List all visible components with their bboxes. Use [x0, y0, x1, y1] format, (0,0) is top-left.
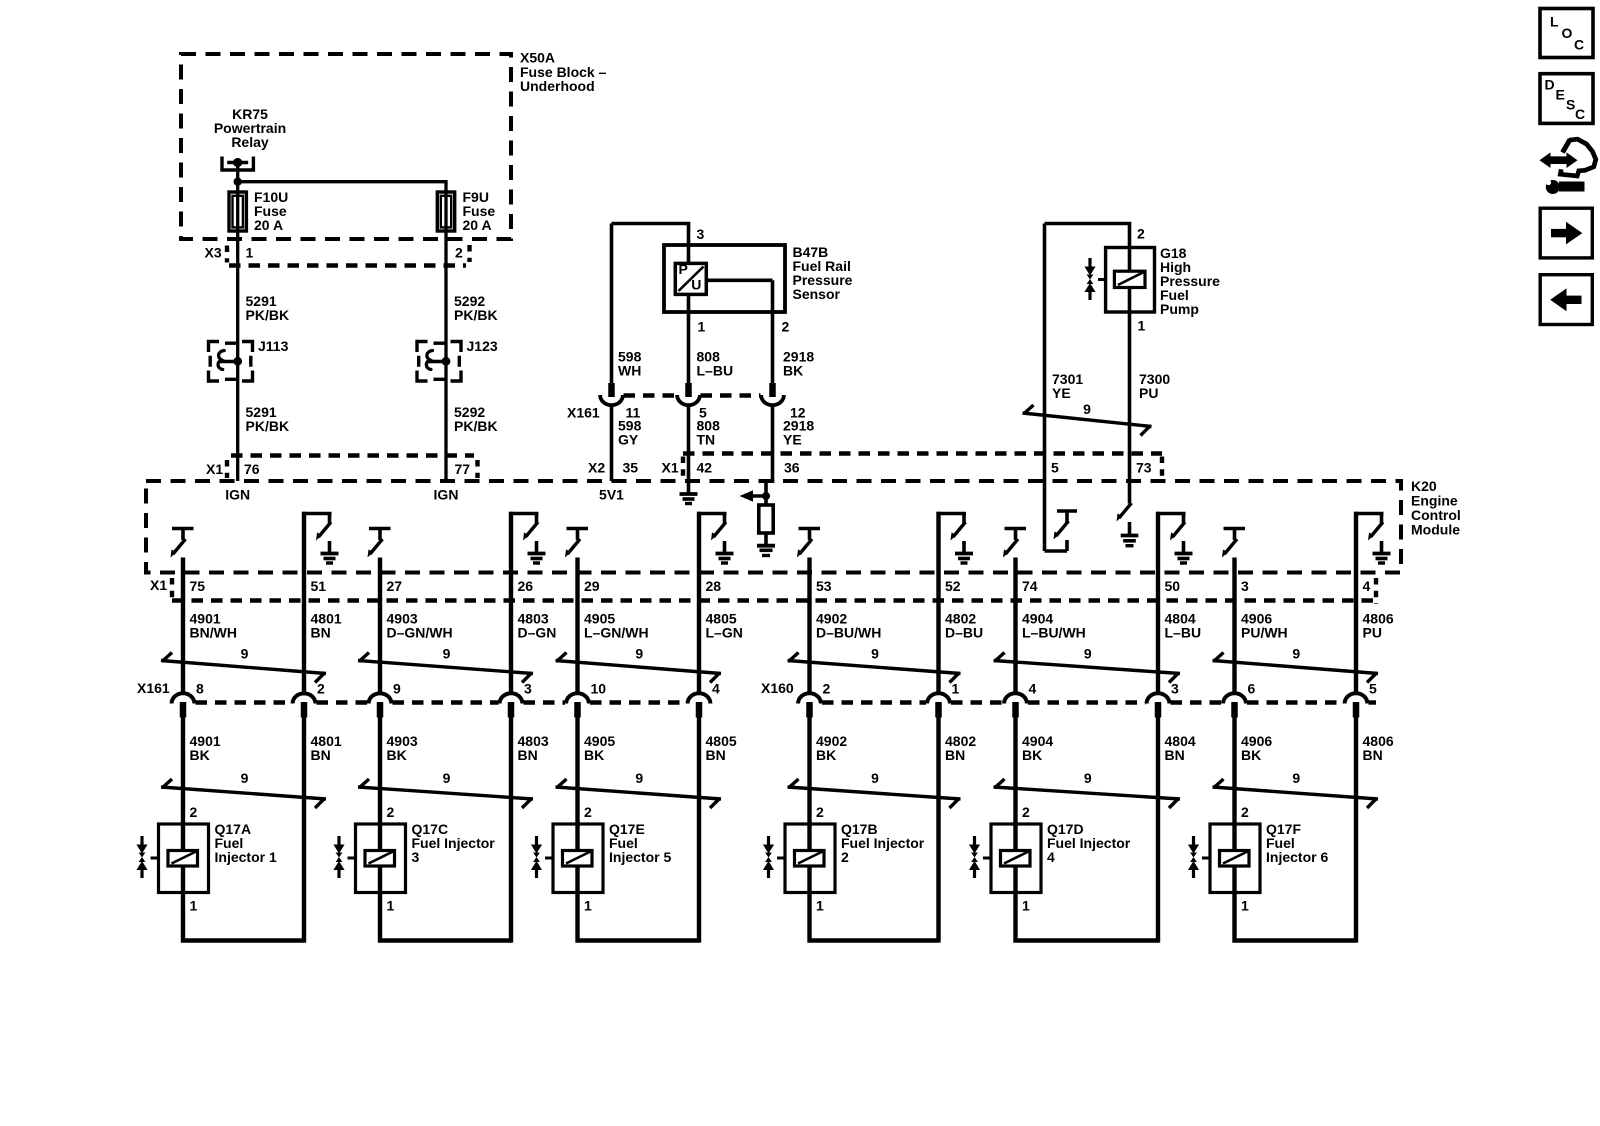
injector Q17C box: [356, 824, 406, 893]
svg-text:3: 3: [524, 681, 532, 697]
driver to ground (ECM pin 28): [697, 512, 733, 695]
svg-text:20 A: 20 A: [463, 217, 492, 233]
svg-text:D: D: [1545, 77, 1555, 93]
terminal Q17E return: [688, 693, 711, 717]
svg-text:20 A: 20 A: [254, 217, 283, 233]
svg-text:BN: BN: [311, 625, 331, 641]
svg-text:9: 9: [241, 646, 249, 662]
pin 11: [626, 405, 641, 421]
label X161 (top): [567, 405, 600, 421]
injector Q17D coil: [1001, 824, 1031, 893]
svg-text:9: 9: [443, 646, 451, 662]
label wire 4902 D&#8211;BU/WH: [816, 611, 881, 641]
pin 2 (Q17F): [1241, 804, 1249, 820]
connector X1 (ECM top) dotted line: [683, 454, 1162, 479]
pin 3 (harness conn): [1171, 681, 1179, 697]
svg-text:BN/WH: BN/WH: [190, 625, 237, 641]
svg-text:9: 9: [635, 770, 643, 786]
label Q17F: [1266, 821, 1328, 865]
svg-text:L–BU: L–BU: [697, 363, 734, 379]
label Q17A: [215, 821, 277, 865]
svg-text:BK: BK: [783, 363, 803, 379]
svg-text:Injector 1: Injector 1: [215, 849, 277, 865]
svg-text:5: 5: [1369, 681, 1377, 697]
pin 2 (Q17D): [1022, 804, 1030, 820]
label 2918 BK: [783, 349, 814, 379]
svg-text:9: 9: [1292, 770, 1300, 786]
label X3: [205, 245, 222, 261]
svg-text:9: 9: [1083, 401, 1091, 417]
pin 42: [697, 460, 713, 476]
injector Q17F nozzle: [1188, 836, 1210, 878]
label wire 4903 D&#8211;GN/WH: [387, 611, 453, 641]
label 598 GY: [618, 418, 642, 448]
injector Q17B coil: [795, 824, 825, 893]
wire 5291 PK/BK (upper): [236, 265, 239, 342]
twisted pair 4906/4806: [1213, 646, 1379, 683]
svg-text:1: 1: [1022, 898, 1030, 914]
terminal Q17B feed: [798, 693, 821, 717]
relay KR75 contact: [222, 157, 253, 184]
label 5292 PK/BK lower: [454, 404, 498, 434]
wire Q17D bottom loop: [1016, 893, 1159, 941]
svg-text:2: 2: [387, 804, 395, 820]
svg-text:Sensor: Sensor: [793, 286, 841, 302]
icon next (right arrow): [1540, 208, 1592, 258]
pin 1 (B47B): [698, 319, 706, 335]
wire pin2 (sensor internal): [706, 280, 772, 383]
pin 1 (Q17A): [190, 898, 198, 914]
svg-text:4: 4: [1363, 578, 1371, 594]
fuse block X50A - Underhood (dashed border): [181, 54, 511, 239]
connector X1 row (to ECM pins 76/77): [227, 456, 478, 479]
svg-text:X160: X160: [761, 680, 794, 696]
svg-text:BN: BN: [945, 747, 965, 763]
svg-text:PK/BK: PK/BK: [246, 418, 290, 434]
icon schematic navigator: [1540, 139, 1596, 194]
svg-text:Injector 6: Injector 6: [1266, 849, 1328, 865]
svg-text:PU: PU: [1363, 625, 1382, 641]
pin 4 (X1): [1363, 578, 1371, 594]
resistor (ECM internal): [759, 496, 773, 544]
connector X161 (sensor) dotted line: [624, 393, 761, 397]
svg-text:Fuel Injector: Fuel Injector: [1047, 835, 1131, 851]
wire 5291 PK/BK (lower): [236, 381, 239, 481]
wire relay to F9U: [238, 182, 448, 192]
twisted pair 4901/4801: [161, 646, 326, 683]
label wire 4802 D&#8211;BU: [945, 611, 983, 641]
wire 598 GY: [610, 405, 614, 481]
injector Q17C coil: [365, 824, 395, 893]
wire 4803 BN return: [509, 716, 513, 943]
pin 35: [623, 460, 639, 476]
wire sensor top loop: [612, 224, 691, 384]
pump G18 wire through: [1128, 248, 1132, 313]
svg-text:26: 26: [518, 578, 534, 594]
wire ECM pin 36 branch: [764, 480, 774, 497]
icon DESC: [1540, 74, 1593, 124]
label X161 (injector row): [137, 680, 170, 696]
wire 4805 BN return: [697, 716, 701, 943]
pin 29 (X1): [584, 578, 600, 594]
pin 1 (Q17B): [816, 898, 824, 914]
pin 36: [784, 460, 800, 476]
label wire 4804 L&#8211;BU: [1165, 611, 1202, 641]
label Q17B: [841, 821, 925, 865]
wire 4906 BK: [1232, 716, 1236, 824]
svg-text:IGN: IGN: [434, 487, 459, 503]
pin 4 (harness conn): [712, 681, 720, 697]
twisted pair 4904/4804: [994, 646, 1181, 683]
label J113: [258, 338, 289, 354]
svg-text:PK/BK: PK/BK: [454, 307, 498, 323]
pump G18 box: [1106, 248, 1155, 313]
svg-text:BN: BN: [1165, 747, 1185, 763]
svg-text:BN: BN: [706, 747, 726, 763]
pin 10 (harness conn): [591, 681, 607, 697]
splice J113 (dashed box): [209, 342, 253, 382]
svg-text:X161: X161: [137, 680, 170, 696]
svg-text:BN: BN: [1363, 747, 1383, 763]
twisted pair 4902/4802: [788, 646, 961, 683]
pin 77: [455, 461, 471, 477]
wire 4801 BN return: [302, 716, 306, 943]
svg-text:Fuel Injector: Fuel Injector: [841, 835, 925, 851]
label Q17E: [609, 821, 671, 865]
twisted pair 4905/4805: [556, 646, 722, 683]
svg-text:8: 8: [196, 681, 204, 697]
injector Q17A box: [159, 824, 209, 893]
svg-text:BK: BK: [816, 747, 836, 763]
svg-text:YE: YE: [783, 432, 802, 448]
svg-text:2: 2: [584, 804, 592, 820]
svg-text:J123: J123: [467, 338, 498, 354]
svg-text:9: 9: [241, 770, 249, 786]
pump G18 nozzle symbol: [1084, 258, 1105, 300]
injector Q17C nozzle: [333, 836, 355, 878]
driver to ground (ECM pin 73): [1117, 481, 1139, 546]
driver to ground (ECM pin 52): [937, 512, 973, 695]
driver to ground (ECM pin 26): [509, 512, 545, 695]
label wire 4802 BN: [945, 733, 976, 763]
terminal Q17C feed: [369, 693, 392, 717]
svg-text:S: S: [1566, 97, 1575, 113]
pin 2 (G18): [1137, 226, 1145, 242]
label wire 4904 BK: [1022, 733, 1053, 763]
svg-text:1: 1: [952, 681, 960, 697]
svg-text:IGN: IGN: [225, 487, 250, 503]
svg-text:X2: X2: [588, 460, 605, 476]
svg-text:E: E: [1556, 87, 1565, 103]
terminal Q17D feed: [1004, 693, 1027, 717]
svg-text:X3: X3: [205, 245, 222, 261]
label wire 4801 BN: [311, 733, 342, 763]
label X1 (ECM bottom): [150, 577, 167, 593]
driver (ECM pin 29): [565, 527, 588, 695]
svg-text:1: 1: [584, 898, 592, 914]
svg-text:28: 28: [706, 578, 722, 594]
label wire 4906 PU/WH: [1241, 611, 1288, 641]
pin 1 (Q17C): [387, 898, 395, 914]
pin 2 (harness conn): [317, 681, 325, 697]
injector Q17B nozzle: [763, 836, 785, 878]
svg-text:77: 77: [455, 461, 471, 477]
svg-text:52: 52: [945, 578, 961, 594]
twisted pair 4905/4805: [556, 770, 722, 808]
label X2: [588, 460, 605, 476]
pin 2 (B47B): [782, 319, 790, 335]
label wire 4901 BK: [190, 733, 221, 763]
label IGN (pin 76): [225, 487, 250, 503]
svg-text:1: 1: [387, 898, 395, 914]
label 808 TN: [697, 418, 721, 448]
pin 5 (X161): [699, 405, 707, 421]
label 7301 YE: [1052, 371, 1083, 401]
pin 2 (Q17C): [387, 804, 395, 820]
svg-text:BK: BK: [190, 747, 210, 763]
signal arrow (pin 36): [740, 490, 771, 501]
svg-text:74: 74: [1022, 578, 1038, 594]
terminal Q17A return: [293, 693, 316, 717]
svg-text:2: 2: [841, 849, 849, 865]
svg-text:L–GN: L–GN: [706, 625, 743, 641]
svg-text:BK: BK: [1022, 747, 1042, 763]
pin 8 (harness conn): [196, 681, 204, 697]
wire Q17C bottom loop: [380, 893, 511, 941]
svg-text:J113: J113: [258, 338, 289, 354]
label 808 L-BU: [697, 349, 734, 379]
pin 1 (Q17F): [1241, 898, 1249, 914]
wire 808 TN: [687, 405, 691, 481]
pin 51 (X1): [311, 578, 327, 594]
driver (ECM pin 74): [1003, 527, 1026, 695]
svg-text:2: 2: [1137, 226, 1145, 242]
label X1 (ECM): [662, 460, 679, 476]
injector Q17B box: [785, 824, 835, 893]
svg-text:9: 9: [871, 770, 879, 786]
sensor B47B box: [664, 245, 785, 312]
svg-text:35: 35: [623, 460, 639, 476]
pin 76: [244, 461, 260, 477]
injector Q17F coil: [1220, 824, 1250, 893]
svg-text:BK: BK: [1241, 747, 1261, 763]
svg-text:73: 73: [1136, 460, 1152, 476]
label wire 4806 PU: [1363, 611, 1394, 641]
svg-text:BK: BK: [584, 747, 604, 763]
svg-text:Underhood: Underhood: [520, 78, 595, 94]
relay KR75 label: [214, 106, 286, 150]
pin 4 (harness conn): [1029, 681, 1037, 697]
driver to ground (ECM pin 51): [302, 512, 338, 695]
svg-text:42: 42: [697, 460, 713, 476]
fuse F9U: [437, 192, 454, 265]
label 5292 PK/BK: [454, 293, 498, 323]
pin 28 (X1): [706, 578, 722, 594]
svg-text:9: 9: [443, 770, 451, 786]
pin 3 (B47B): [697, 226, 705, 242]
svg-text:TN: TN: [697, 432, 716, 448]
svg-text:2: 2: [1241, 804, 1249, 820]
svg-text:PU/WH: PU/WH: [1241, 625, 1288, 641]
injector Q17D nozzle: [969, 836, 991, 878]
label B47B Fuel Rail Pressure Sensor: [793, 244, 853, 302]
svg-text:C: C: [1575, 106, 1585, 122]
wire 4806 BN return: [1354, 716, 1358, 943]
svg-text:P: P: [679, 261, 688, 277]
terminal Q17D return: [1147, 693, 1170, 717]
svg-text:D–GN/WH: D–GN/WH: [387, 625, 453, 641]
driver (ECM pin 5): [1045, 481, 1078, 551]
svg-text:BN: BN: [311, 747, 331, 763]
pin 2 (Q17A): [190, 804, 198, 820]
svg-text:1: 1: [1241, 898, 1249, 914]
twisted pair 4903/4803: [358, 770, 533, 808]
pin 26 (X1): [518, 578, 534, 594]
connector X3 row: [227, 245, 470, 266]
label X1: [206, 461, 223, 477]
label 5V1: [599, 487, 624, 503]
terminal Q17A feed: [172, 693, 195, 717]
splice J123 (dashed box): [417, 342, 461, 382]
svg-text:9: 9: [635, 646, 643, 662]
svg-text:L–GN/WH: L–GN/WH: [584, 625, 649, 641]
terminal X161-11: [600, 383, 623, 407]
wire 2918 YE: [771, 405, 775, 481]
injector Q17A coil: [168, 824, 198, 893]
terminal Q17E feed: [566, 693, 589, 717]
svg-text:6: 6: [1248, 681, 1256, 697]
svg-text:1: 1: [190, 898, 198, 914]
svg-text:1: 1: [698, 319, 706, 335]
label F9U Fuse 20 A: [463, 189, 496, 233]
label G18 High Pressure Fuel Pump: [1160, 245, 1220, 317]
icon LOC: [1540, 9, 1593, 58]
label Q17C: [412, 821, 496, 865]
pin 6 (harness conn): [1248, 681, 1256, 697]
wire Q17A bottom loop: [183, 893, 304, 941]
svg-text:X1: X1: [206, 461, 223, 477]
svg-text:29: 29: [584, 578, 600, 594]
svg-text:O: O: [1562, 25, 1573, 41]
driver (ECM pin 53): [797, 527, 820, 695]
label wire 4804 BN: [1165, 733, 1196, 763]
svg-text:9: 9: [1084, 770, 1092, 786]
svg-text:5: 5: [1051, 460, 1059, 476]
svg-text:Relay: Relay: [231, 134, 269, 150]
ECM K20 (dashed border): [146, 481, 1401, 573]
injector Q17E nozzle: [531, 836, 553, 878]
pin 75 (X1): [190, 578, 206, 594]
svg-text:50: 50: [1165, 578, 1181, 594]
pin 5 (harness conn): [1369, 681, 1377, 697]
driver (ECM pin 27): [368, 527, 391, 695]
svg-text:Module: Module: [1411, 522, 1460, 538]
svg-text:YE: YE: [1052, 385, 1071, 401]
svg-text:1: 1: [246, 245, 254, 261]
label wire 4901 BN/WH: [190, 611, 237, 641]
svg-text:9: 9: [871, 646, 879, 662]
label 5291 PK/BK lower: [246, 404, 290, 434]
svg-text:L–BU: L–BU: [1165, 625, 1202, 641]
label wire 4905 L&#8211;GN/WH: [584, 611, 649, 641]
twisted pair 4902/4802: [788, 770, 961, 808]
svg-text:3: 3: [1241, 578, 1249, 594]
svg-text:2: 2: [1022, 804, 1030, 820]
label wire 4905 BK: [584, 733, 615, 763]
svg-text:4: 4: [1047, 849, 1055, 865]
ground (below resistor): [757, 546, 775, 556]
svg-text:27: 27: [387, 578, 403, 594]
ground (ECM pin 42): [680, 481, 698, 504]
pin 2 (Q17E): [584, 804, 592, 820]
label F10U Fuse 20 A: [254, 189, 288, 233]
svg-text:10: 10: [591, 681, 607, 697]
twisted pair 4904/4804: [994, 770, 1181, 808]
connector X161/X160 dotted line: [196, 700, 1377, 704]
wire 4903 BK: [378, 716, 382, 824]
wire Q17E bottom loop: [578, 893, 700, 941]
svg-text:PK/BK: PK/BK: [454, 418, 498, 434]
pin 5 (ECM): [1051, 460, 1059, 476]
pin 1 (G18): [1138, 318, 1146, 334]
svg-text:D–BU/WH: D–BU/WH: [816, 625, 881, 641]
pin 1 (X3): [246, 245, 254, 261]
svg-text:9: 9: [1084, 646, 1092, 662]
label 5291 PK/BK: [246, 293, 290, 323]
label wire 4806 BN: [1363, 733, 1394, 763]
wire 4904 BK: [1013, 716, 1017, 824]
svg-text:X1: X1: [150, 577, 167, 593]
pin 1 (Q17D): [1022, 898, 1030, 914]
connector X1 (ECM bottom) dotted line: [172, 578, 1376, 604]
label wire 4803 D&#8211;GN: [518, 611, 557, 641]
driver (ECM pin 75): [171, 527, 194, 695]
label 7300 PU: [1139, 371, 1170, 401]
svg-text:36: 36: [784, 460, 800, 476]
pin 50 (X1): [1165, 578, 1181, 594]
pin 1 (Q17E): [584, 898, 592, 914]
label wire 4805 L&#8211;GN: [706, 611, 743, 641]
svg-text:76: 76: [244, 461, 260, 477]
injector Q17E coil: [563, 824, 593, 893]
svg-text:Injector 5: Injector 5: [609, 849, 671, 865]
terminal Q17F return: [1345, 693, 1368, 717]
pump G18 coil: [1114, 271, 1145, 287]
label wire 4904 L&#8211;BU/WH: [1022, 611, 1086, 641]
label K20 Engine Control Module: [1411, 478, 1461, 537]
svg-text:L: L: [1550, 14, 1559, 30]
pin 53 (X1): [816, 578, 832, 594]
terminal X161-12: [761, 383, 784, 407]
terminal X161-5: [677, 383, 700, 407]
twisted pair 7301/7300: [1023, 401, 1152, 435]
label 598 WH: [618, 349, 642, 379]
sensor B47B P/U symbol: [675, 261, 706, 294]
label wire 4906 BK: [1241, 733, 1272, 763]
svg-text:D–GN: D–GN: [518, 625, 557, 641]
wire 4901 BK: [181, 716, 185, 824]
svg-text:BN: BN: [518, 747, 538, 763]
wire 4902 BK: [807, 716, 811, 824]
svg-text:WH: WH: [618, 363, 641, 379]
svg-text:1: 1: [816, 898, 824, 914]
label X50A Fuse Block - Underhood: [520, 50, 607, 95]
svg-text:Fuel Injector: Fuel Injector: [412, 835, 496, 851]
injector Q17D box: [991, 824, 1041, 893]
svg-text:PK/BK: PK/BK: [246, 307, 290, 323]
label J123: [467, 338, 498, 354]
pin 52 (X1): [945, 578, 961, 594]
